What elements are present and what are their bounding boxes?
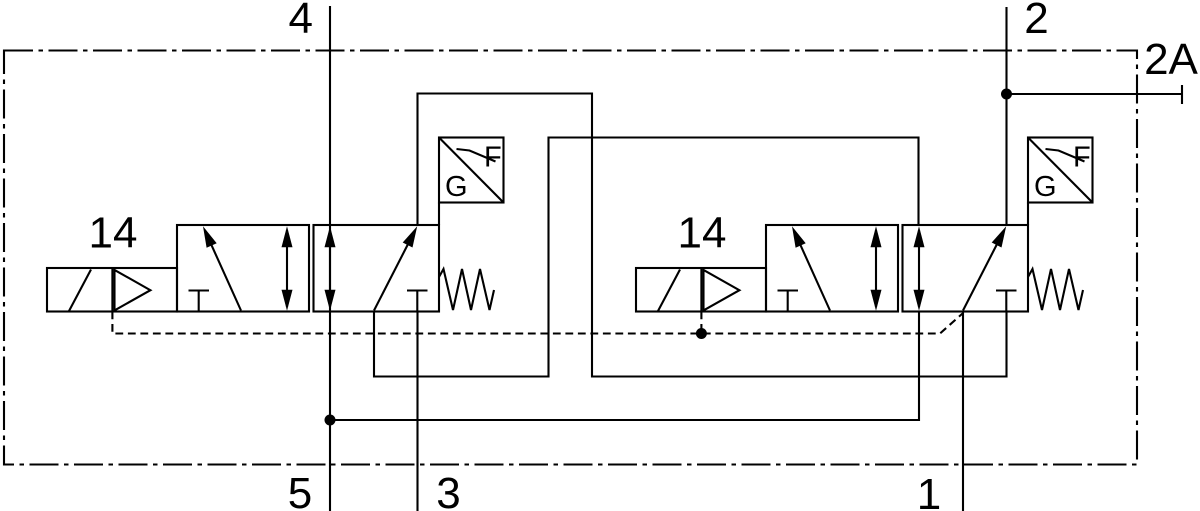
wire: valve V1 bottom port to valve V2 top port (path B) bbox=[374, 138, 919, 377]
solenoid coil Y1 with pilot bbox=[47, 268, 177, 312]
svg-text:F: F bbox=[484, 142, 502, 174]
svg-text:G: G bbox=[1034, 171, 1057, 203]
wire: port 1 line bbox=[962, 312, 964, 511]
return spring (valve 2) bbox=[1028, 269, 1083, 310]
valve V2 right position box bbox=[903, 225, 1029, 312]
one-way flow control GRLA box (valve 2) bbox=[1028, 138, 1093, 226]
valve V1 right position box bbox=[314, 225, 440, 312]
node: junction on port 2 line bbox=[1001, 89, 1012, 100]
svg-text:1: 1 bbox=[917, 470, 941, 511]
wire: branch to output 2A bbox=[1007, 93, 1183, 95]
valve V2 left position box bbox=[766, 225, 898, 312]
svg-text:3: 3 bbox=[436, 469, 460, 511]
enclosure / subplate border (dash-dot) bbox=[4, 51, 1137, 465]
svg-text:2A: 2A bbox=[1144, 35, 1198, 84]
terminal tick 2A bbox=[1181, 85, 1183, 104]
node: junction on line 5 bbox=[325, 415, 336, 426]
wire: valve V1 outlet over to valve V2 bottom port (path A) bbox=[418, 94, 1007, 377]
svg-text:14: 14 bbox=[678, 209, 727, 258]
solenoid coil Y2 with pilot bbox=[636, 268, 766, 312]
svg-text:14: 14 bbox=[89, 209, 138, 258]
svg-text:F: F bbox=[1073, 142, 1091, 174]
svg-text:5: 5 bbox=[288, 469, 312, 511]
pilot control line (dashed) from solenoid Y1 bbox=[112, 312, 962, 334]
wire: branch from line 5 to valve V2 bottom bbox=[330, 312, 919, 421]
wire: port 3 line bbox=[416, 312, 418, 511]
svg-text:G: G bbox=[445, 171, 468, 203]
one-way flow control GRLA box (valve 1) bbox=[439, 138, 504, 226]
svg-text:2: 2 bbox=[1024, 0, 1048, 43]
pilot control line (dashed) drop from solenoid Y2 bbox=[700, 312, 702, 334]
svg-text:4: 4 bbox=[288, 0, 312, 43]
node: pilot line junction bbox=[696, 328, 707, 339]
wire: port 2 line bbox=[1005, 7, 1007, 225]
return spring (valve 1) bbox=[439, 269, 494, 310]
valve V1 left position box bbox=[177, 225, 309, 312]
wire: working line port 4 to port 5 (x=330) bbox=[329, 6, 331, 511]
